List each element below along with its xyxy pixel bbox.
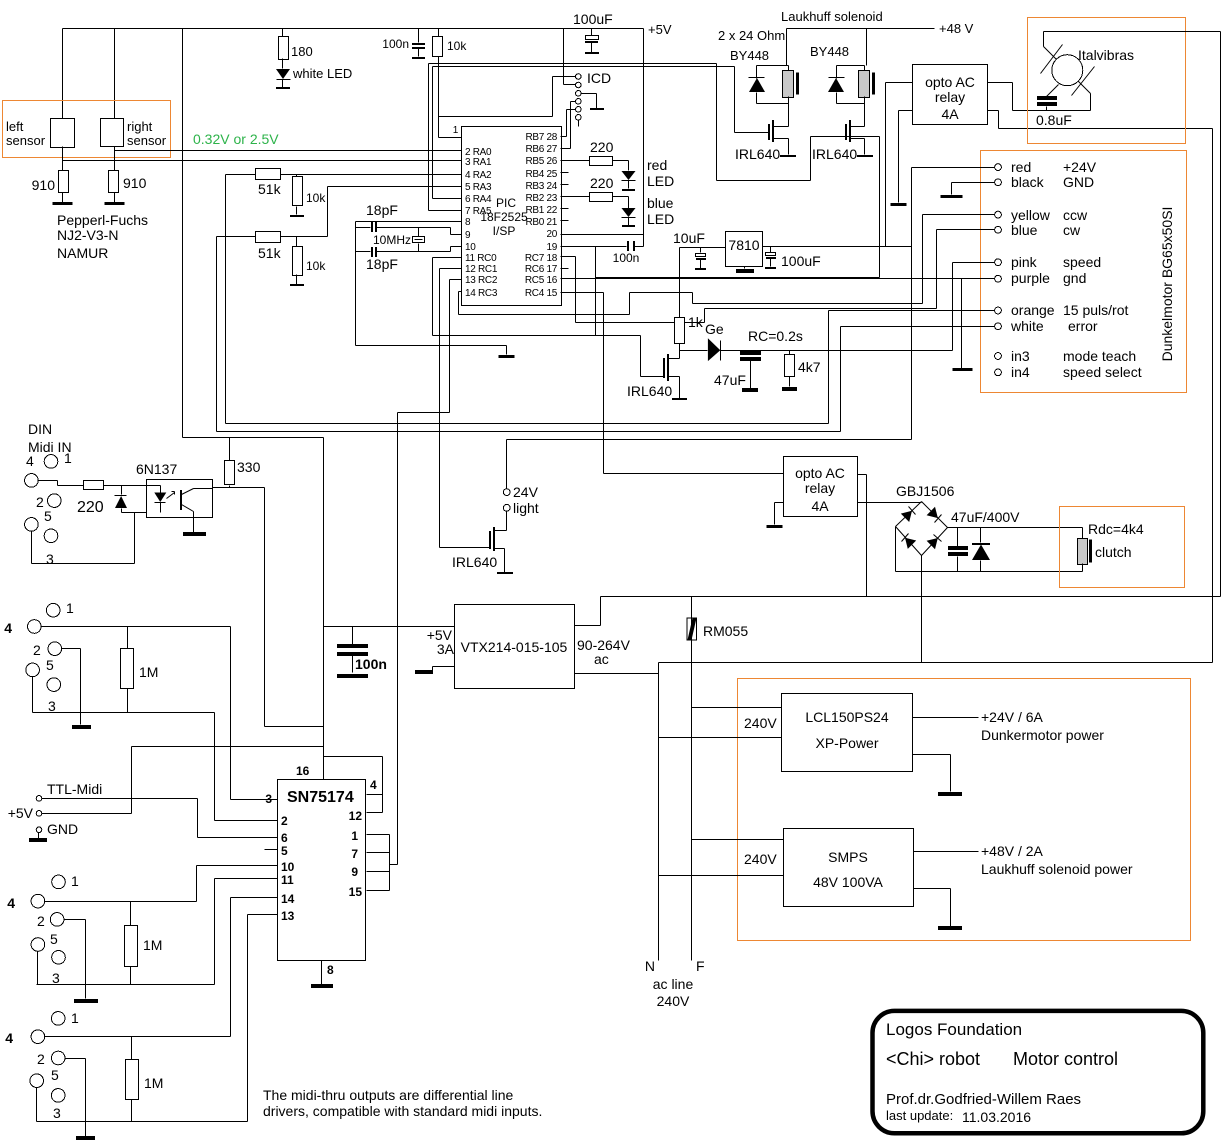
svg-text:Ge: Ge [705,321,724,337]
svg-text:5: 5 [281,844,288,858]
wire pin13 [248,914,278,916]
svg-text:4: 4 [4,620,12,636]
wire thru2 return to pin11 [37,879,215,985]
svg-text:24V: 24V [513,484,539,500]
node TTL-Midi pads [36,796,42,802]
svg-text:18pF: 18pF [366,256,398,272]
svg-text:2: 2 [36,494,44,510]
wire relay2 out bottom to bridge [858,502,922,504]
svg-text:RB0 21: RB0 21 [525,217,557,228]
svg-text:+5V: +5V [648,22,672,37]
LED red [622,171,636,180]
svg-text:2: 2 [281,814,288,828]
wire blue [937,230,995,309]
wire yellow [923,215,995,304]
svg-text:100uF: 100uF [573,11,613,27]
svg-text:4k7: 4k7 [798,359,821,375]
svg-text:15 puls/rot: 15 puls/rot [1063,302,1128,318]
svg-text:14 RC3: 14 RC3 [465,288,498,299]
capacitor 100n (PIC decoupling top) [418,29,420,43]
wire motor cap bottom run [1047,110,1091,112]
svg-text:RC6 17: RC6 17 [525,264,558,275]
svg-text:910: 910 [32,177,56,193]
ground 47uF [742,388,758,392]
node white pad [995,323,1002,330]
capacitor 100n (VDD decoupling) [627,241,629,251]
svg-text:mode teach: mode teach [1063,348,1136,364]
svg-text:RB6 27: RB6 27 [525,144,557,155]
svg-text:PIC: PIC [496,196,516,210]
svg-text:11: 11 [281,873,294,887]
svg-text:ICD: ICD [587,70,611,86]
wire solenoid2 top [837,29,867,66]
wire TTL +5V [42,747,324,814]
svg-text:IRL640: IRL640 [812,146,857,162]
svg-text:error: error [1068,318,1098,334]
wire thru1 pin4 to pin3 [42,627,231,800]
transistor Q4 IRL640 (light) [494,512,507,531]
wire +24V vertical [911,168,913,440]
svg-text:Laukhuff solenoid power: Laukhuff solenoid power [981,861,1133,877]
capacitor 100n (5V bulk) [352,627,354,645]
svg-text:relay: relay [935,89,965,105]
wire +5V top rail [63,28,644,30]
wire pin3 [231,799,278,801]
svg-text:47uF/400V: 47uF/400V [951,509,1020,525]
svg-text:1k: 1k [688,314,704,330]
wire relay1 out bottom to N [988,111,1213,663]
svg-text:relay: relay [805,480,835,496]
svg-text:Motor control: Motor control [1013,1049,1118,1069]
svg-text:220: 220 [590,175,614,191]
svg-text:20: 20 [546,229,557,240]
svg-text:ac line: ac line [653,976,694,992]
svg-text:14: 14 [281,892,295,906]
ground osc [499,355,515,358]
svg-text:SMPS: SMPS [828,849,868,865]
node in4 pad [995,369,1002,376]
svg-text:10k: 10k [306,259,326,273]
svg-text:3: 3 [52,970,60,986]
svg-text:red: red [647,157,667,173]
svg-text:4A: 4A [941,106,959,122]
wire pin14 [231,897,278,899]
resistor 51k (lower divider) [217,236,256,238]
svg-text:240V: 240V [744,715,777,731]
svg-text:15: 15 [349,885,363,899]
svg-text:Rdc=4k4: Rdc=4k4 [1088,521,1144,537]
wire thru2 pin4 to pin10 [45,866,197,902]
svg-text:1: 1 [64,450,72,466]
svg-text:NJ2-V3-N: NJ2-V3-N [57,227,118,243]
resistor 1M (thru3) [131,1037,133,1060]
svg-text:orange: orange [1011,302,1055,318]
svg-text:light: light [513,500,539,516]
diode freewheel (clutch) [980,528,982,543]
svg-text:9: 9 [465,230,471,241]
svg-text:RC7 18: RC7 18 [525,253,558,264]
regulator 7810 box [726,232,763,267]
svg-text:4: 4 [26,453,34,469]
orange box Italvibras [1028,18,1186,144]
wire thru1 gnd [62,649,81,725]
svg-text:4 RA2: 4 RA2 [465,170,492,181]
svg-text:8: 8 [465,217,471,228]
resistor 10k (lower divider) [296,237,298,247]
connector DIN thru 2 [52,875,66,889]
svg-text:gnd: gnd [1063,270,1086,286]
node orange pad [995,307,1002,314]
svg-text:100n: 100n [613,251,640,265]
svg-text:100n: 100n [355,656,387,672]
solenoid L1 [788,66,790,71]
wire driver input from RC2 [397,413,399,865]
resistor 1M (thru2) [130,902,132,926]
svg-text:+48 V: +48 V [939,21,974,36]
resistor 10k (upper divider) [296,175,298,177]
svg-text:16: 16 [296,764,310,778]
svg-text:10MHz: 10MHz [373,233,411,247]
svg-text:speed: speed [1063,254,1101,270]
wire motor top to F [1044,32,1221,597]
svg-text:+5V: +5V [8,805,34,821]
svg-text:I/SP: I/SP [493,224,516,238]
wire left sensor drop [62,29,64,119]
wire bridge plus out [948,527,1083,529]
wire RC4 to relay2 [561,293,604,474]
svg-text:2 x 24 Ohm: 2 x 24 Ohm [718,28,785,43]
opto AC relay 1 box [913,65,988,125]
svg-text:left: left [6,119,24,134]
solenoid L2 [864,66,866,71]
resistor 910 right [109,171,119,193]
optocoupler 6N137 box [147,480,213,518]
svg-text:SN75174: SN75174 [287,789,354,806]
svg-text:Pepperl-Fuchs: Pepperl-Fuchs [57,212,148,228]
driver SN75174 box [278,780,366,961]
svg-text:7: 7 [351,847,358,861]
svg-text:18F2525: 18F2525 [480,210,528,224]
svg-text:purple: purple [1011,270,1050,286]
wire outputs 1 7 9 15 bracket [367,835,398,891]
wire ICD gnd [582,94,597,109]
svg-text:sensor: sensor [6,133,46,148]
svg-text:Prof.dr.Godfried-Willem Raes: Prof.dr.Godfried-Willem Raes [886,1091,1081,1108]
svg-text:9: 9 [351,865,358,879]
wire MCLR to ICD pin1 [439,77,576,117]
wire white from rail B [841,327,995,432]
svg-text:BY448: BY448 [730,48,769,63]
ground relay2 [767,525,783,528]
wire relay1 coil+ from +24V line [886,83,913,247]
svg-text:7810: 7810 [728,237,759,253]
wire N to SMPS [659,875,784,877]
wire thru2 gnd [65,920,86,999]
svg-text:1M: 1M [144,1075,163,1091]
wire VTX ac bottom to N [575,673,659,675]
svg-text:right: right [127,119,153,134]
svg-text:DIN: DIN [28,421,52,437]
wire VTX ac top to F [575,597,601,626]
svg-text:+24V / 6A: +24V / 6A [981,709,1044,725]
wire N line [659,663,1213,961]
wire ICD aux [578,121,580,127]
svg-text:Laukhuff solenoid: Laukhuff solenoid [781,9,883,24]
wire RC0 to Ge gate [433,336,665,377]
svg-text:GND: GND [1063,174,1094,190]
ground 6N137 emitter [193,518,195,533]
svg-text:51k: 51k [258,181,282,197]
svg-text:48V 100VA: 48V 100VA [813,874,883,890]
svg-text:11.03.2016: 11.03.2016 [962,1109,1031,1125]
svg-text:VTX214-015-105: VTX214-015-105 [461,639,568,655]
wire relay2 gnd [775,503,784,525]
wire bridge AC2 to N [921,556,923,663]
svg-text:220: 220 [590,139,614,155]
capacitor 47uF [750,351,752,353]
svg-text:12 RC1: 12 RC1 [465,264,498,275]
crystal X1 10MHz [418,228,420,252]
resistor 910 left [59,171,69,193]
svg-text:240V: 240V [657,993,690,1009]
resistor 330 [229,438,231,461]
svg-text:5: 5 [51,1067,59,1083]
svg-text:13 RC2: 13 RC2 [465,275,498,286]
wire midi return [32,513,161,564]
orange box clutch [1060,507,1185,588]
pin5 stub [265,849,278,851]
svg-text:+48V / 2A: +48V / 2A [981,843,1044,859]
svg-text:1: 1 [351,829,358,843]
wire N to LCL [659,737,782,739]
svg-text:6 RA4: 6 RA4 [465,194,492,205]
transistor Q3 IRL640 (speed PWM) [667,354,669,381]
svg-text:100uF: 100uF [781,253,821,269]
wire pin10 [197,865,278,867]
svg-text:GBJ1506: GBJ1506 [896,483,955,499]
connector DIN thru 3 [51,1012,65,1026]
svg-text:18pF: 18pF [366,202,398,218]
svg-text:GND: GND [47,821,78,837]
wire F to SMPS [692,839,784,841]
svg-text:sensor: sensor [127,133,167,148]
LED blue [622,208,636,217]
svg-text:drivers, compatible with stand: drivers, compatible with standard midi i… [263,1103,542,1119]
wire 6N137 output down [213,488,324,727]
orange box sensors [3,101,171,158]
svg-text:RB5 26: RB5 26 [525,156,557,167]
node blue pad [995,226,1002,233]
wire pin19 VSS [561,246,627,248]
wire speed RC node [680,350,708,352]
capacitor 10uF [700,248,702,253]
LED white [276,69,290,79]
svg-text:yellow: yellow [1011,207,1051,223]
diode Ge [708,338,720,361]
svg-text:180: 180 [291,44,313,59]
connector DIN midi-in pads [44,455,58,469]
wire rail B (RA3 net to white) [217,431,841,433]
resistor 4k7 [789,351,791,355]
wire RC5 long [561,278,962,280]
svg-text:IRL640: IRL640 [735,146,780,162]
wire 7810 output left [680,247,726,249]
wire RA5 from gate rail [429,64,462,211]
svg-text:pink: pink [1011,254,1038,270]
ground SMPS [914,889,951,927]
svg-text:4: 4 [5,1030,13,1046]
right sensor box [101,119,124,147]
left sensor box [51,119,75,148]
solenoid clutch [1082,528,1084,539]
svg-text:Dunkelmotor BG65x50SI: Dunkelmotor BG65x50SI [1159,207,1175,362]
wire pin20 VDD [561,234,644,236]
wire orange from rail A [829,311,995,424]
wire ICD PGD [561,102,576,149]
ground TTL [38,833,40,839]
psu VTX214-015-105 box [455,605,575,689]
resistor 51k (upper divider) [226,174,256,176]
svg-text:4: 4 [7,895,15,911]
svg-text:0.32V or 2.5V: 0.32V or 2.5V [193,131,279,147]
wire relay1 out top to motor [988,83,1091,111]
svg-text:0.8uF: 0.8uF [1036,112,1072,128]
svg-text:6N137: 6N137 [136,461,177,477]
svg-text:RB7 28: RB7 28 [525,132,557,143]
wire thru3 pin4 to pin14 [45,898,231,1037]
wire TTL-Midi to pin6 [42,799,278,838]
svg-text:1: 1 [453,125,459,136]
svg-text:RC4 15: RC4 15 [525,288,558,299]
connector DIN thru 1 [46,603,60,617]
wire osc ground run [356,222,507,355]
svg-text:RB2 23: RB2 23 [525,193,557,204]
wire relay2 input [604,473,784,475]
wire gate rail RA5 outer [429,64,880,181]
diode BY448 #2 [836,66,838,79]
LED inside 6N137 [122,486,161,493]
svg-text:XP-Power: XP-Power [815,735,878,751]
svg-text:5: 5 [46,657,54,673]
psu LCL150PS24 box [782,694,913,772]
svg-text:47uF: 47uF [714,372,746,388]
motor M1 Italvibras [1052,55,1083,86]
wire purple to ground [962,279,995,369]
capacitor 18pF upper [356,227,451,229]
svg-text:cw: cw [1063,222,1081,238]
op-amp U1 PIC 18F2525 box [462,127,562,306]
svg-text:BY448: BY448 [810,44,849,59]
svg-text:4A: 4A [811,498,829,514]
svg-text:1M: 1M [143,937,162,953]
capacitor 100uF (7810 out) [770,247,772,253]
svg-text:last update:: last update: [886,1108,953,1123]
svg-text:LED: LED [647,173,674,189]
svg-text:10k: 10k [306,191,326,205]
wire +5V net vertical [323,438,325,780]
wire ICD Vdd [564,29,576,85]
svg-text:3A: 3A [437,641,455,657]
opto AC relay 2 box [784,457,858,517]
svg-text:51k: 51k [258,245,282,261]
svg-text:3: 3 [53,1105,61,1121]
node red pad [995,164,1002,171]
wire red +24V [912,167,995,169]
resistor 1M (thru1) [127,627,129,649]
orange box Dunkelmotor connector [981,151,1187,393]
ground black [941,195,963,198]
ground LCL [913,755,951,792]
svg-text:ccw: ccw [1063,207,1088,223]
svg-text:N: N [645,958,655,974]
resistor 220 (midi in) [84,481,104,490]
wire pin2 [215,820,278,822]
wire DIN pin4 to 220 [39,481,84,486]
wire relay1 coil- to ground [899,111,913,203]
ground VTX [433,667,455,671]
ground pin8 [321,961,323,985]
wire SMPS +48V out [914,851,979,853]
transistor Q1 IRL640 [772,120,774,142]
ground relay1 [891,203,907,206]
svg-text:white LED: white LED [292,66,352,81]
title block [873,1011,1204,1133]
svg-text:4: 4 [370,778,377,792]
wire rail B (51k lower left end down) [216,237,218,432]
wire thru3 return to pin13 [37,915,248,1122]
svg-text:240V: 240V [744,851,777,867]
wire ICD PGC [561,110,576,137]
wire diode2 to drain [837,104,865,127]
wire F to LCL [692,707,782,709]
node in3 pad [995,353,1002,360]
wire F line long [601,596,1221,598]
transistor inside 6N137 [180,490,182,510]
wire bridge minus out [896,527,1083,572]
svg-text:clutch: clutch [1095,544,1132,560]
resistor 10k (MCLR pullup) [438,29,440,37]
svg-text:RB4 25: RB4 25 [525,169,557,180]
wire pin12 pin4 enable [324,757,383,813]
svg-text:blue: blue [1011,222,1038,238]
wire 6N137 Vcc rail [183,437,324,439]
diode BY448 #1 [756,66,758,79]
wire gate Q1 from RA4 [433,67,769,133]
wire rail A (RA2 net to orange) [226,423,829,425]
wire MCLR to pin1 [439,137,462,139]
svg-text:220: 220 [77,499,104,516]
wire RA3 to lower divider [328,187,462,237]
resistor 180 [282,29,284,37]
ground 7810 [744,267,746,269]
svg-text:11 RC0: 11 RC0 [465,253,497,264]
svg-text:black: black [1011,174,1045,190]
svg-text:1: 1 [71,873,79,889]
svg-text:330: 330 [237,459,261,475]
wire RB2 to blue LED [561,196,590,198]
wire RC7 [561,257,937,323]
svg-text:red: red [1011,159,1031,175]
svg-text:2: 2 [37,913,45,929]
svg-text:10k: 10k [447,39,467,53]
svg-text:3: 3 [48,698,56,714]
svg-text:ac: ac [594,651,609,667]
svg-text:10: 10 [465,242,476,253]
wire black to ground [952,183,995,195]
svg-text:speed select: speed select [1063,364,1142,380]
orange box mains PSU [738,679,1191,941]
svg-text:2: 2 [33,642,41,658]
